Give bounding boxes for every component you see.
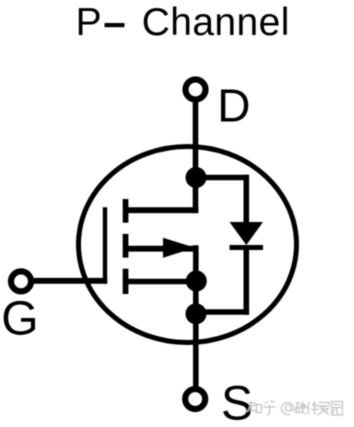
- body arrow (points away from channel: P-channel): [163, 238, 195, 258]
- wire drain vertical: [193, 103, 199, 214]
- title P-Channel: [76, 1, 290, 44]
- svg-text:D: D: [217, 79, 250, 131]
- char jian: [307, 402, 319, 416]
- channel segment top (drain contact): [123, 199, 129, 223]
- wire source vertical: [193, 245, 199, 387]
- char yuan: [332, 402, 343, 416]
- wire diode top horizontal: [196, 175, 249, 181]
- diode D1 cathode bar: [230, 245, 264, 250]
- wire diode vertical lower: [244, 248, 250, 315]
- wire drain horizontal from top channel bar: [125, 207, 198, 213]
- wire diode bottom horizontal: [196, 309, 249, 315]
- wire diode vertical upper: [244, 175, 250, 226]
- gate electrode line: [103, 207, 107, 284]
- wire source horizontal from bottom channel bar: [125, 279, 196, 285]
- char zhi: [247, 401, 261, 414]
- wire body horizontal with arrow: [125, 246, 196, 252]
- svg-text:Channel: Channel: [142, 1, 290, 44]
- node D terminal circle: [186, 80, 206, 100]
- svg-text:P: P: [76, 1, 102, 44]
- junction source-diode dot: [186, 303, 207, 324]
- wire gate horizontal: [30, 278, 107, 284]
- svg-text:S: S: [221, 378, 253, 427]
- junction source-body dot: [186, 271, 207, 292]
- char hu: [263, 401, 276, 415]
- channel segment middle (body contact): [123, 234, 129, 258]
- junction drain dot: [186, 167, 207, 188]
- char ying: [295, 402, 306, 415]
- char at: [282, 402, 294, 414]
- svg-text:G: G: [1, 293, 38, 346]
- diode D1 triangle: [230, 222, 264, 245]
- char jia: [318, 403, 330, 416]
- watermark zhihu: [247, 401, 343, 416]
- node S terminal circle: [185, 389, 205, 409]
- channel segment bottom (source contact): [123, 269, 129, 294]
- node G terminal circle: [11, 271, 31, 291]
- enclosure circle: [79, 147, 297, 343]
